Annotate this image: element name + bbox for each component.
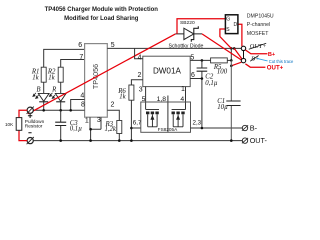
svg-text:D: D bbox=[234, 22, 238, 28]
label DMP1045U bbox=[247, 14, 274, 37]
IC U2 DW01A bbox=[143, 56, 190, 86]
svg-text:P-channel: P-channel bbox=[247, 22, 270, 28]
junction dot C2 to B- wire bbox=[201, 127, 204, 130]
wire pin6 TP4056 to R1 bbox=[44, 49, 85, 67]
svg-text:TP4056 Charger Module with Pro: TP4056 Charger Module with Protection bbox=[45, 7, 159, 13]
resistor R1 bbox=[31, 67, 46, 82]
wire TP4056 pins 1,3 to ground bbox=[90, 117, 101, 140]
red pointer to B+ bbox=[246, 50, 268, 54]
svg-text:FS8205A: FS8205A bbox=[158, 127, 178, 132]
svg-text:3: 3 bbox=[97, 117, 101, 124]
svg-text:7: 7 bbox=[79, 54, 83, 61]
terminal OUT- bbox=[242, 138, 248, 143]
svg-text:2: 2 bbox=[138, 72, 142, 79]
wire TP4056 pin2 to R3 bbox=[107, 110, 119, 120]
svg-text:Schottky Diode: Schottky Diode bbox=[169, 43, 204, 49]
wire pin7 TP4056 to R2 bbox=[61, 60, 85, 68]
red wire diode cathode to OUT+ terminal bbox=[202, 34, 241, 60]
resistor 10K pulldown (red mod) bbox=[5, 110, 45, 140]
svg-text:10µ: 10µ bbox=[217, 104, 228, 111]
svg-text:100: 100 bbox=[217, 69, 228, 76]
IC U3 FS8205A dual mosfet bbox=[141, 102, 191, 132]
LED B (blue charge LED) bbox=[33, 86, 49, 102]
svg-text:DW01A: DW01A bbox=[153, 67, 181, 76]
wire B+ rail from battery to pin8 bbox=[33, 109, 84, 111]
svg-text:Modified for Load Sharing: Modified for Load Sharing bbox=[64, 16, 139, 22]
svg-text:10K: 10K bbox=[5, 122, 14, 127]
trace between terminals (to cut) bbox=[243, 51, 245, 59]
svg-text:3: 3 bbox=[139, 86, 143, 93]
svg-text:1k: 1k bbox=[48, 75, 55, 82]
wire R6 down to ground rail bbox=[130, 100, 132, 140]
wire DW01A pin1 to FS8205A gate2 bbox=[185, 87, 187, 110]
svg-text:4: 4 bbox=[138, 54, 142, 61]
B+ rail down to C1 and OUT- bbox=[230, 60, 232, 140]
blue annotation line bbox=[257, 58, 268, 61]
wire R1 to LED B bbox=[43, 82, 45, 93]
wire DW01A pin5 to R5 bbox=[190, 59, 210, 61]
red wire battery+ to diode anode (long diagonal) bbox=[28, 34, 176, 114]
resistor R6 bbox=[117, 85, 134, 101]
title text bbox=[45, 7, 159, 22]
red pointer to OUT+ bbox=[245, 64, 265, 67]
wire DW01A pin2 to R6 bbox=[131, 80, 142, 85]
svg-text:B: B bbox=[36, 86, 40, 93]
svg-text:1k: 1k bbox=[32, 75, 39, 82]
svg-text:R: R bbox=[51, 86, 57, 93]
red wire diode anode up to MOSFET gate bbox=[177, 19, 225, 34]
red wire OUT+ terminal to C1 rail junction bbox=[231, 62, 241, 66]
svg-text:Resistor: Resistor bbox=[25, 124, 43, 130]
wire FS8205A pins 1,8 bbox=[167, 96, 169, 133]
junction dots B+ rail bbox=[42, 109, 72, 112]
terminal B- bbox=[242, 125, 248, 130]
old label B+ struck bbox=[250, 55, 259, 62]
capacitor C1 bbox=[217, 98, 240, 111]
capacitor C3 bbox=[55, 110, 82, 140]
svg-text:1k: 1k bbox=[119, 94, 126, 101]
svg-text:OUT-: OUT- bbox=[250, 136, 268, 145]
svg-text:B-: B- bbox=[250, 123, 258, 132]
red wire MOSFET source to rail junction bbox=[220, 29, 231, 48]
svg-text:G: G bbox=[226, 16, 230, 22]
wire DW01A pin4 to top rail bbox=[135, 48, 143, 58]
svg-text:1: 1 bbox=[85, 117, 89, 124]
mosfet B inside FS8205A bbox=[172, 110, 186, 127]
battery terminal - bbox=[27, 137, 34, 144]
svg-text:4: 4 bbox=[80, 92, 84, 99]
old label OUT+ struck bbox=[249, 43, 267, 50]
svg-text:MOSFET: MOSFET bbox=[247, 31, 269, 37]
wire FS8205A pins 2,3 to B- bbox=[191, 127, 243, 129]
schottky diode D1 SB220 bbox=[169, 20, 204, 49]
resistor R2 bbox=[47, 67, 63, 82]
svg-text:2,3: 2,3 bbox=[193, 120, 202, 127]
transistor Q1 DMP1045U P-channel MOSFET bbox=[225, 15, 238, 34]
svg-text:6: 6 bbox=[78, 42, 82, 49]
resistor R5 bbox=[211, 58, 228, 76]
svg-text:Cut this trace: Cut this trace bbox=[269, 59, 294, 64]
svg-text:1: 1 bbox=[181, 86, 185, 93]
junction dots ground rail bbox=[59, 139, 232, 142]
svg-text:1,2k: 1,2k bbox=[104, 126, 116, 133]
wire DW01A pin3 to FS8205A gate1 bbox=[145, 87, 147, 110]
junction dot2 top rail bbox=[233, 47, 236, 50]
capacitor C2 bbox=[197, 60, 218, 128]
wire R3 to ground rail bbox=[118, 134, 120, 141]
svg-text:SB220: SB220 bbox=[180, 20, 195, 26]
svg-text:OUT+: OUT+ bbox=[267, 65, 284, 72]
wire DW01A pin6 to C2 line bbox=[190, 78, 202, 80]
svg-text:0,1µ: 0,1µ bbox=[205, 80, 217, 87]
junction dot1 top rail bbox=[230, 47, 233, 50]
svg-text:2: 2 bbox=[110, 101, 114, 108]
LED R (red charge LED) bbox=[49, 86, 66, 102]
battery terminal + bbox=[27, 107, 34, 114]
svg-text:5: 5 bbox=[111, 42, 115, 49]
wire R5 to rail junction bbox=[227, 59, 231, 61]
svg-text:8: 8 bbox=[81, 101, 85, 108]
wire LED B cathode to B+ rail bbox=[43, 102, 45, 110]
wire FS8205A pins 6,7 bbox=[131, 127, 140, 129]
wire LED R cathode to B+ rail bbox=[60, 102, 62, 110]
svg-text:B+: B+ bbox=[268, 52, 276, 58]
svg-text:0,1µ: 0,1µ bbox=[70, 126, 82, 133]
terminal OUT+ (old B+) bbox=[241, 58, 245, 62]
IC U1 TP4056 bbox=[85, 44, 108, 118]
terminal B+ (old OUT+) bbox=[241, 46, 245, 50]
top rail TP4056 pin5 bbox=[107, 47, 241, 49]
wire TP4056 pin4 bbox=[71, 100, 85, 111]
wire R2 to LED R bbox=[60, 82, 62, 93]
red wire MOSFET drain to B+ terminal bbox=[238, 24, 242, 46]
svg-text:DMP1045U: DMP1045U bbox=[247, 14, 274, 20]
wire dot1 down to R5 bbox=[230, 48, 232, 60]
mosfet A inside FS8205A bbox=[146, 110, 159, 127]
red wire dot2 to OUT+ terminal bbox=[234, 48, 242, 58]
resistor R3 bbox=[104, 121, 121, 134]
ground rail OUT- bbox=[33, 140, 242, 142]
